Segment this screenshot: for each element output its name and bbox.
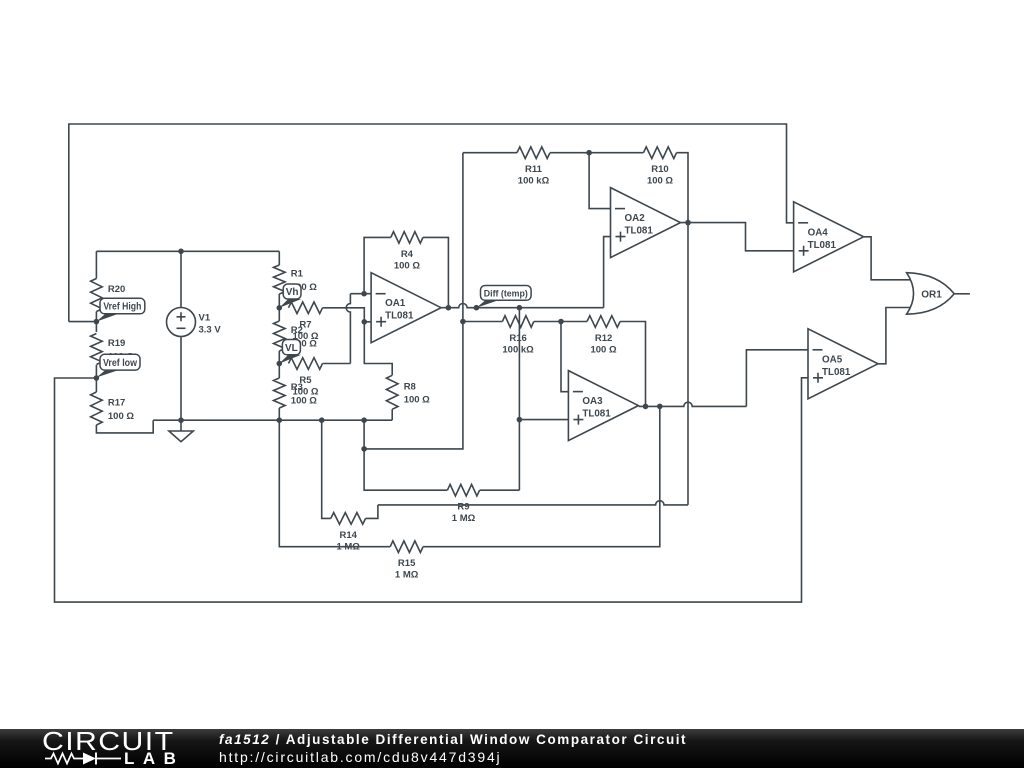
svg-text:Vref High: Vref High [103, 302, 141, 313]
wire R16-R12 junction row [534, 321, 587, 323]
resistor R7 [289, 302, 323, 314]
resistor R15 [390, 541, 423, 553]
svg-text:100 Ω: 100 Ω [394, 260, 420, 271]
svg-text:TL081: TL081 [822, 367, 851, 378]
svg-text:3.3 V: 3.3 V [199, 325, 222, 336]
op-amp OA4 [794, 202, 864, 272]
wire top rail V+ [96, 250, 279, 252]
wire R4 left lead down to minus node [364, 237, 391, 293]
node B Vref low junction [94, 375, 100, 381]
resistor R3 [274, 378, 286, 408]
wire R20-R19 node A [95, 312, 97, 333]
wire OA3 minus feed [561, 322, 568, 392]
resistor R2 [274, 321, 286, 351]
svg-text:R1: R1 [291, 269, 304, 280]
svg-text:OA3: OA3 [582, 396, 603, 407]
footer bar [0, 729, 1024, 768]
resistor R19 [91, 334, 103, 365]
wire OA2 output vertical down to R14 row [687, 223, 689, 505]
svg-text:100 kΩ: 100 kΩ [502, 345, 534, 356]
junction OA3 non-inverting R9 [517, 417, 523, 423]
junction ground rail R14 [319, 417, 325, 423]
wire OA5 output to OR1 bottom input [878, 308, 913, 364]
wire V1 top lead [180, 251, 182, 307]
svg-text:R17: R17 [108, 398, 125, 409]
wire V1 bottom lead [180, 337, 182, 421]
flag VrefHigh [96, 314, 118, 322]
svg-text:TL081: TL081 [582, 409, 611, 420]
resistor R5 [289, 358, 323, 370]
junction OA1 inverting input [361, 291, 367, 297]
resistor R20 [91, 279, 103, 312]
svg-text:V1: V1 [199, 313, 211, 324]
junction R15 to OA3 output [657, 404, 663, 410]
node A Vref High junction [94, 319, 100, 325]
resistor R10 [644, 147, 677, 159]
junction R11-R10 OA2 inverting [586, 150, 592, 156]
resistor R4 [391, 232, 423, 244]
wire OA3 output row (hop over OA2 down vertical) [639, 402, 747, 406]
flag VL [279, 355, 301, 364]
flag VrefLow [96, 370, 118, 377]
wire R1 top lead [278, 251, 280, 265]
junction OA2 output [685, 220, 691, 226]
wire OA1 output Diff row (hop over R11 left vertical) [441, 304, 603, 308]
junction R12 to OA3 output [643, 404, 649, 410]
svg-text:R14: R14 [339, 530, 357, 541]
node Vh junction [277, 305, 283, 311]
junction Diff to OA3 branch [517, 305, 523, 311]
svg-text:Diff (temp): Diff (temp) [484, 289, 528, 300]
svg-text:R11: R11 [525, 164, 543, 175]
junction ground rail R3-R15 [277, 417, 283, 423]
wire R14 right step to OA2 out vertical (hop over R15 vertical) [366, 505, 378, 519]
resistor R12 [587, 316, 620, 328]
svg-text:TL081: TL081 [808, 240, 837, 251]
wire R11-R10 junction [550, 152, 644, 154]
flag Diff [476, 300, 498, 307]
wire OA1 plus to R8 top [364, 322, 392, 376]
voltage source V1 [167, 308, 196, 337]
svg-text:R9: R9 [457, 502, 469, 513]
svg-text:OA2: OA2 [625, 213, 646, 224]
junction OA1 non-inverting input [362, 319, 368, 325]
wire R3 bottom lead [278, 408, 280, 420]
svg-text:OR1: OR1 [921, 289, 942, 300]
flag Vh [279, 299, 301, 308]
svg-text:OA4: OA4 [808, 227, 829, 238]
resistor R1 [274, 265, 286, 294]
wire OA3 out up to OA5 minus [746, 350, 808, 407]
junction ground rail V1 [178, 417, 184, 423]
resistor R11 [517, 147, 550, 159]
svg-text:1 MΩ: 1 MΩ [395, 570, 419, 581]
svg-text:VL: VL [285, 343, 298, 354]
wire ground rail [153, 419, 392, 421]
junction ground rail R8-R9 [361, 417, 367, 423]
wire OR1 output stub [954, 293, 970, 295]
svg-text:R15: R15 [398, 558, 416, 569]
wire R11 left vertical down to R16 junction and link [364, 153, 463, 449]
footer logo squiggle [45, 751, 123, 766]
wire R11 left lead [463, 152, 517, 154]
wire R15 right to OA3 out vertical [423, 406, 660, 546]
svg-text:100 Ω: 100 Ω [647, 176, 673, 187]
junction R4 output [446, 305, 452, 311]
resistor R8 [386, 375, 398, 409]
svg-text:TL081: TL081 [385, 311, 414, 322]
svg-text:TL081: TL081 [625, 226, 654, 237]
svg-text:1 MΩ: 1 MΩ [452, 513, 476, 524]
wire R17 bottom jog to ground rail [96, 420, 153, 433]
wire R1 to Vh node [278, 294, 280, 321]
wire node A to left vertical [69, 321, 97, 323]
wire Diff row up to OA2 plus [604, 237, 611, 308]
resistor R17 [91, 392, 103, 425]
wire R16 left lead [463, 321, 503, 323]
svg-text:100 Ω: 100 Ω [404, 395, 430, 406]
wire Vref low long run to OA5 plus [55, 378, 809, 602]
svg-text:100 Ω: 100 Ω [292, 387, 318, 398]
wire Vh row R7 to OA1 plus [323, 308, 372, 322]
wire OA3 plus feed [519, 419, 568, 421]
wire R4 right lead down to output [423, 237, 448, 307]
wire R12 right lead down to OA3 output [620, 322, 645, 407]
wire OA2 minus feed [589, 153, 610, 209]
wire OA4 output to OR1 top input [864, 237, 913, 280]
op-amp OA5 [808, 329, 878, 399]
svg-text:1 MΩ: 1 MΩ [336, 541, 360, 552]
junction R9 link [361, 446, 367, 452]
ground [180, 420, 182, 431]
svg-text:R12: R12 [595, 333, 612, 344]
svg-text:R19: R19 [108, 338, 125, 349]
junction R16-R12 OA3 inverting [558, 319, 564, 325]
op-amp OA2 [611, 188, 681, 258]
junction V1 top rail [178, 249, 184, 255]
wire R10 right lead down to OA2 output [677, 153, 689, 223]
op-amp OA1 [371, 273, 441, 343]
resistor R14 [331, 513, 366, 525]
wire R14 left vertical from rail [322, 420, 331, 518]
wire Diff vertical to OA3 plus and R9 [518, 308, 520, 491]
node VL junction [277, 361, 283, 367]
wire top loop: Vref High node to OA4 minus [69, 124, 794, 322]
resistor R9 [447, 484, 479, 496]
svg-text:R7: R7 [299, 319, 311, 330]
svg-text:100 Ω: 100 Ω [590, 345, 616, 356]
wire ground link down to R9 left [364, 420, 447, 490]
svg-text:100 kΩ: 100 kΩ [518, 176, 550, 187]
wire R19-R17 node B [95, 365, 97, 392]
svg-text:R10: R10 [651, 164, 668, 175]
svg-text:Vref low: Vref low [103, 358, 137, 369]
wire R8 bottom to ground rail [391, 409, 393, 420]
wire OA2 output to OA4 plus [681, 223, 794, 251]
svg-text:100 Ω: 100 Ω [108, 411, 134, 422]
svg-text:OA5: OA5 [822, 354, 843, 365]
svg-text:R20: R20 [108, 284, 125, 295]
wire R15 left vertical from rail [279, 420, 390, 547]
svg-text:R8: R8 [404, 381, 416, 392]
node Diff attach junction [474, 305, 480, 311]
svg-text:R16: R16 [509, 333, 526, 344]
op-amp OA3 [568, 371, 638, 441]
wire R20 top lead [95, 251, 97, 278]
wire VL row R5 to OA1 minus (hop over Vh row) [346, 294, 350, 364]
svg-text:R5: R5 [299, 375, 312, 386]
OR gate OR1 [907, 273, 955, 315]
wire R2 to VL node [278, 351, 280, 378]
junction R11 left to R16 [460, 319, 466, 325]
svg-text:Vh: Vh [286, 287, 299, 298]
resistor R16 [502, 316, 533, 328]
wire R9 right lead [480, 489, 520, 491]
svg-text:R4: R4 [401, 249, 414, 260]
svg-text:OA1: OA1 [385, 298, 406, 309]
